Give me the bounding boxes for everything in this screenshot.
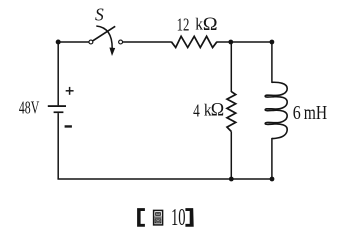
switch S left terminal (89, 40, 93, 44)
wire node C down to inductor L1 (271, 42, 273, 83)
wire bottom rail (57, 178, 272, 180)
wire R2 to bottom node D (230, 132, 232, 180)
switch S blade (93, 26, 115, 41)
caption left lenticular bracket (137, 208, 145, 227)
svg-text:10: 10 (171, 204, 186, 231)
switch S right terminal (119, 40, 123, 44)
resistor R1 12 kOhm (horizontal zigzag) (171, 36, 217, 47)
wire top-left: node A to switch (58, 41, 89, 43)
wire R1 to node B (217, 41, 231, 43)
battery V1 48V plus plate (long) (48, 105, 66, 107)
label 12 kOhm value (177, 14, 218, 35)
wire switch to resistor R1 (123, 41, 172, 43)
label + polarity (66, 87, 74, 95)
wire battery minus to bottom-left corner (57, 113, 59, 179)
wire left rail: node A down to battery + plate (57, 42, 59, 105)
label 4 kOhm value (193, 99, 224, 121)
resistor R2 4 kOhm (vertical zigzag) (227, 92, 236, 132)
switch S closing arrow (96, 26, 112, 49)
svg-text:48V: 48V (19, 98, 39, 118)
wire L1 to bottom node E (271, 138, 273, 179)
svg-text:6: 6 (293, 101, 301, 123)
caption right lenticular bracket (185, 208, 193, 227)
caption CJK character Tu (figure) (154, 210, 163, 225)
svg-text:4: 4 (193, 102, 200, 121)
node C junction dot (270, 40, 275, 45)
svg-text:Ω: Ω (211, 99, 224, 121)
wire node B to node C (231, 41, 272, 43)
label 6 mH value (293, 101, 328, 123)
svg-text:Ω: Ω (203, 14, 218, 34)
node B junction dot (228, 40, 233, 45)
svg-text:mH: mH (304, 101, 328, 123)
node A junction dot (top-left corner) (56, 40, 61, 45)
svg-text:12: 12 (177, 15, 190, 35)
node D junction dot (229, 177, 234, 182)
battery V1 48V minus plate (short) (54, 111, 64, 113)
inductor L1 6 mH (coil) (265, 82, 287, 138)
node E junction dot (270, 177, 275, 182)
wire node B down to resistor R2 (230, 42, 232, 92)
label - polarity (65, 125, 72, 127)
svg-text:S: S (95, 5, 104, 25)
